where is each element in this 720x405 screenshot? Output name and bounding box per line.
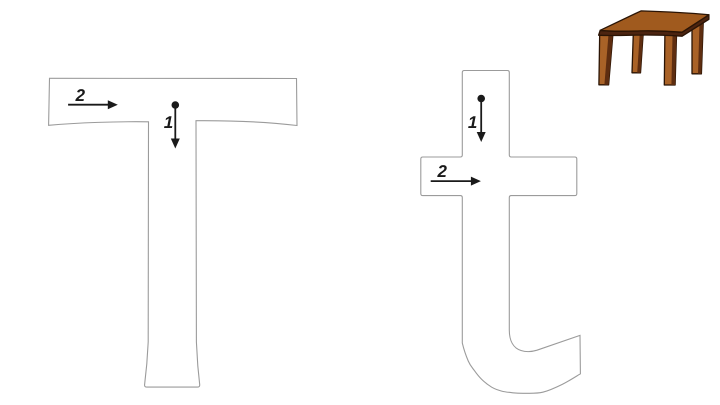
table leg front-left	[599, 33, 613, 85]
label 2 on T	[75, 89, 85, 101]
table leg back-left	[632, 33, 643, 73]
stroke 1 arrow on T: shaft	[174, 105, 176, 140]
table leg front-right	[664, 32, 676, 85]
tabletop surface	[600, 11, 709, 32]
stroke 1 arrow on t: shaft	[480, 99, 482, 135]
table clipart	[599, 11, 709, 85]
label 2 on t	[437, 165, 447, 177]
stroke 1 arrow on t: head	[477, 132, 486, 142]
uppercase T outline	[49, 78, 297, 387]
label 1 on t	[468, 116, 476, 128]
label 1 on T	[164, 116, 172, 128]
stroke 2 arrow on t: shaft	[431, 180, 473, 182]
stroke 2 arrow on T: head	[108, 100, 118, 109]
table leg back-left shade	[637, 33, 643, 73]
tabletop edge band	[599, 15, 709, 36]
table leg front-left shade	[604, 33, 613, 85]
table leg back-right shade	[698, 20, 703, 74]
stroke 2 arrow on T: shaft	[68, 104, 110, 106]
stroke 1 arrow on T: dot	[172, 101, 180, 109]
table leg front-right shade	[671, 32, 676, 85]
stroke 1 arrow on t: dot	[477, 95, 485, 103]
lowercase t outline	[421, 71, 581, 394]
stroke 1 arrow on T: head	[171, 139, 180, 149]
stroke 2 arrow on t: head	[471, 177, 481, 186]
table leg back-right	[692, 20, 703, 74]
